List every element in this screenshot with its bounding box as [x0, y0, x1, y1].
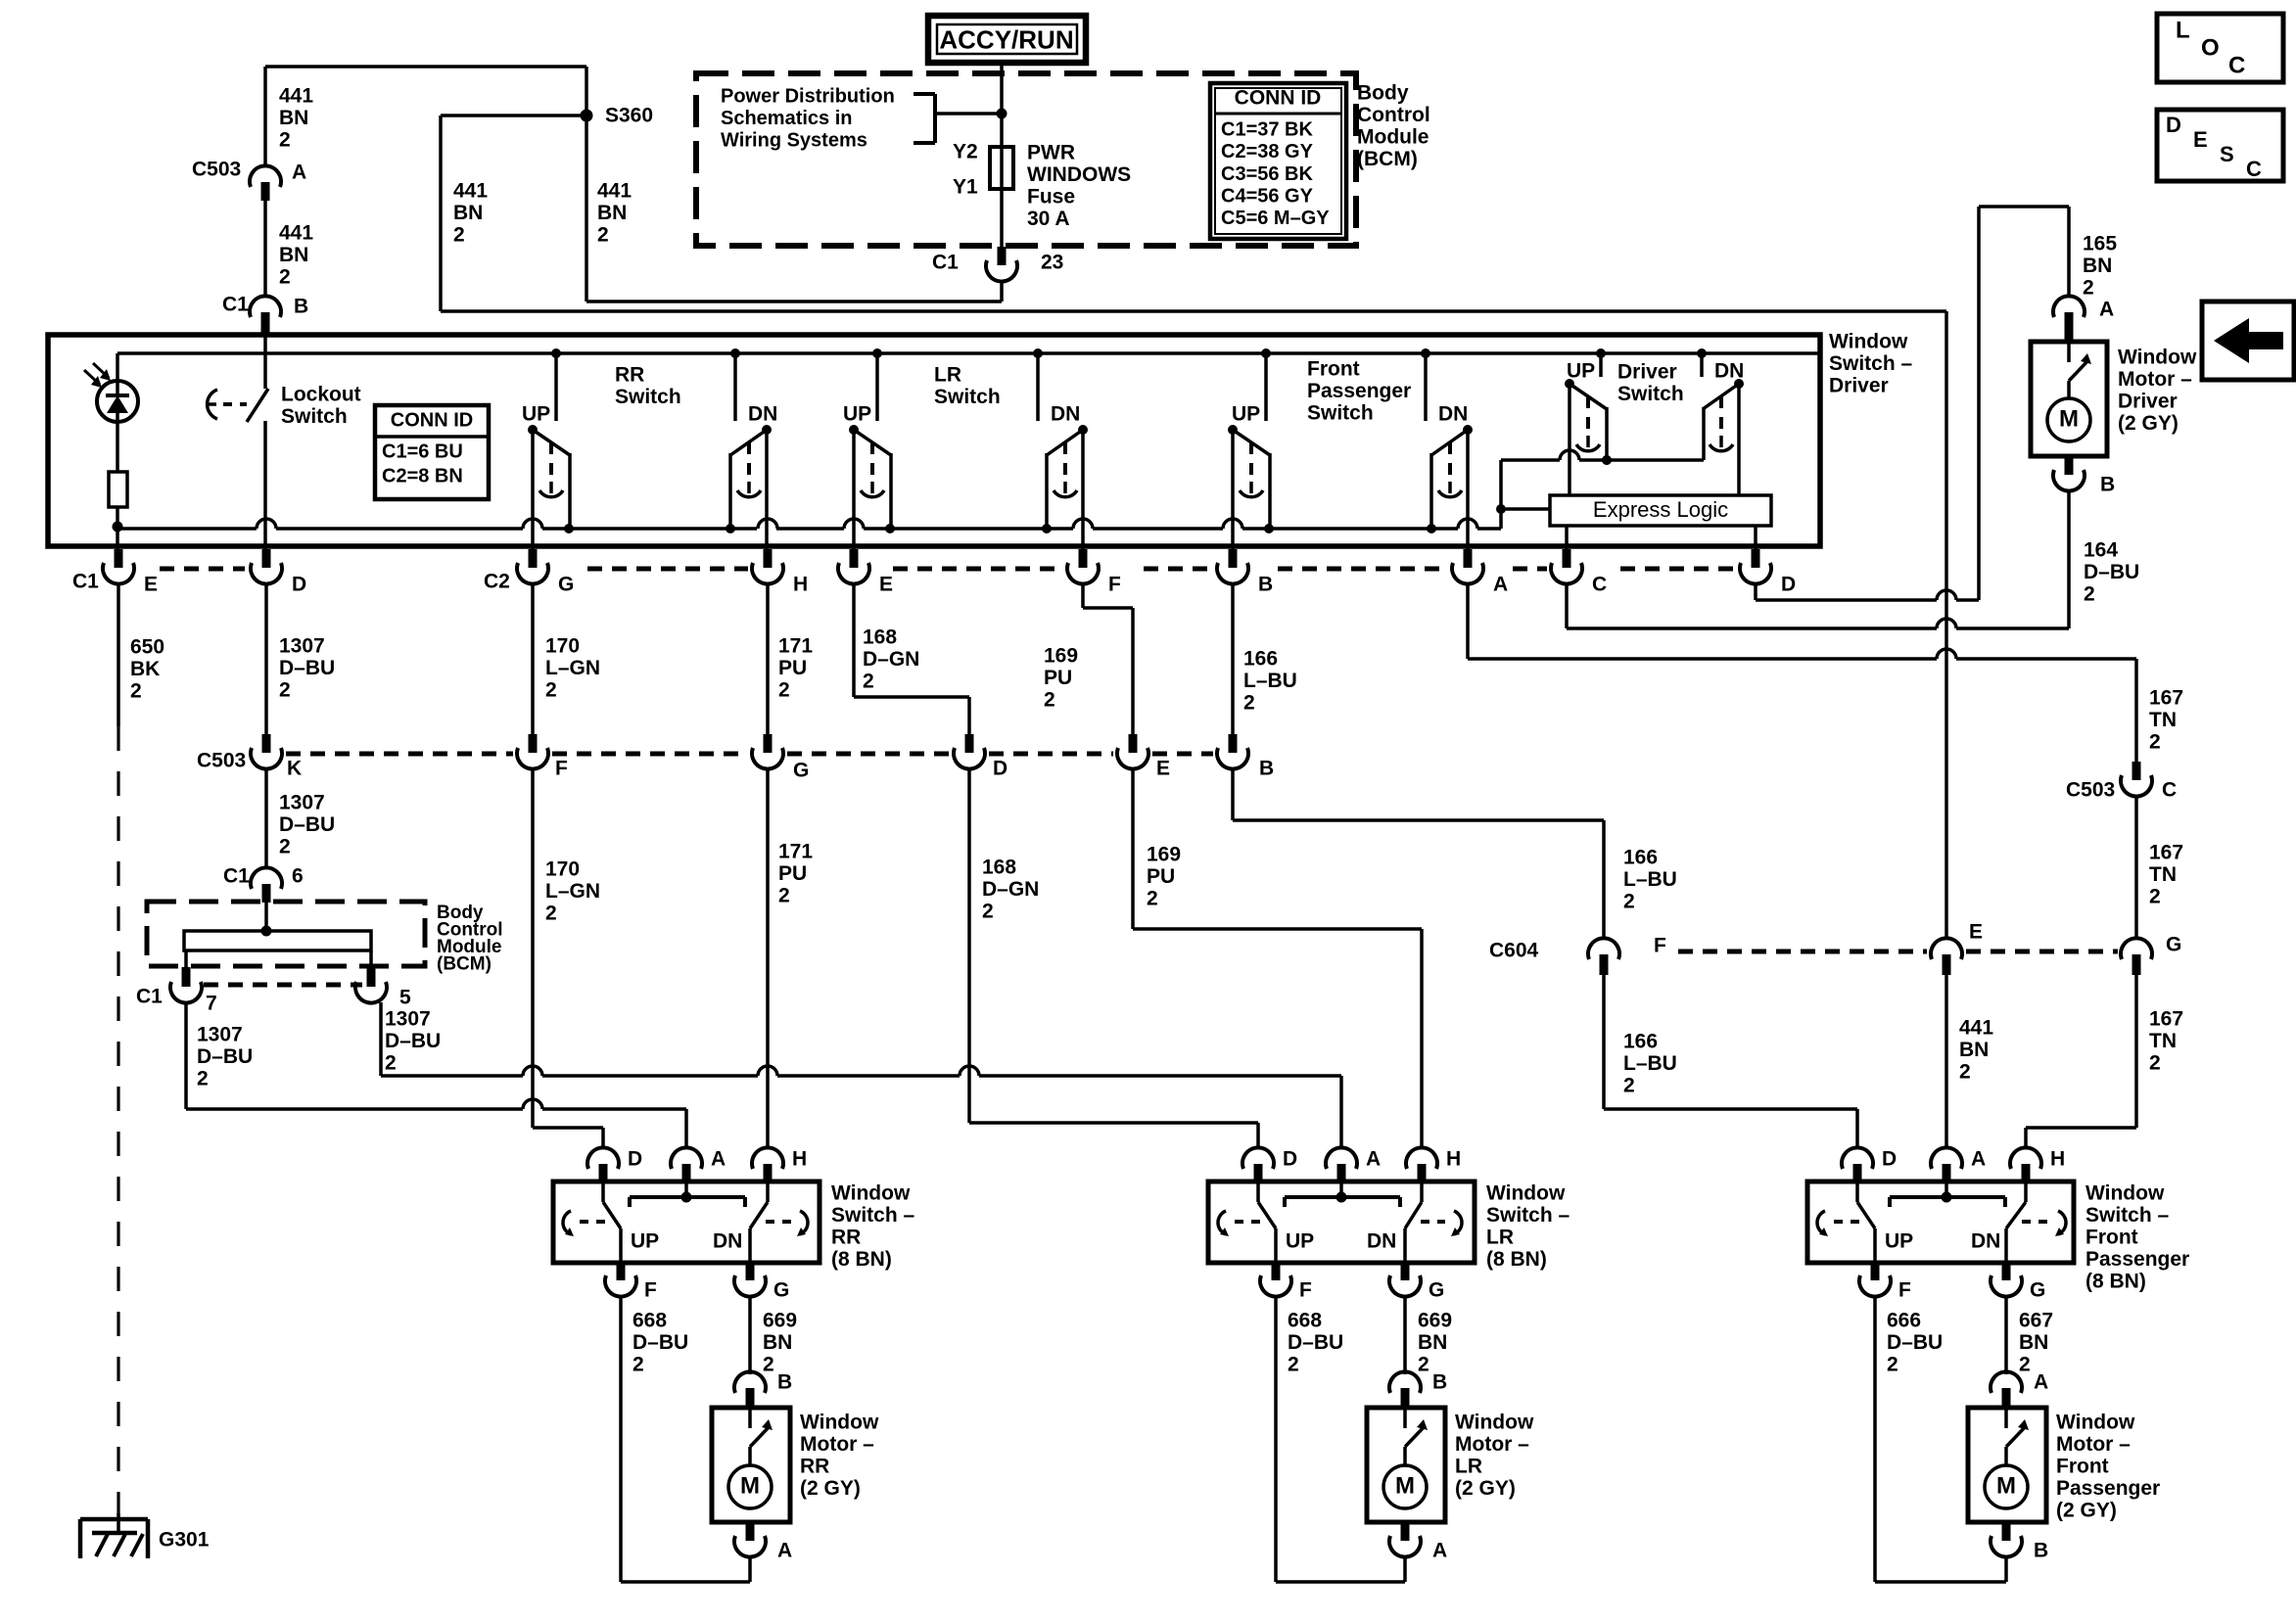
svg-text:DN: DN	[1714, 359, 1744, 382]
svg-text:BN: BN	[279, 107, 308, 129]
svg-text:A: A	[2099, 298, 2114, 320]
svg-text:LR: LR	[1486, 1226, 1514, 1248]
svg-text:C: C	[2228, 53, 2245, 79]
svg-text:D–BU: D–BU	[1288, 1331, 1343, 1354]
svg-text:B: B	[1258, 573, 1273, 595]
svg-text:RR: RR	[831, 1226, 861, 1248]
svg-text:G: G	[558, 573, 574, 595]
svg-text:E: E	[2193, 127, 2208, 152]
svg-text:TN: TN	[2149, 1030, 2177, 1052]
svg-text:169: 169	[1044, 644, 1078, 667]
svg-text:D: D	[628, 1147, 642, 1170]
svg-text:C5=6 M–GY: C5=6 M–GY	[1221, 208, 1330, 229]
svg-text:D–BU: D–BU	[197, 1045, 253, 1068]
svg-text:2: 2	[1623, 890, 1635, 912]
svg-text:1307: 1307	[279, 634, 325, 657]
svg-text:2: 2	[2019, 1353, 2031, 1375]
svg-text:D: D	[993, 757, 1007, 779]
svg-text:166: 166	[1623, 846, 1658, 868]
svg-text:PU: PU	[778, 862, 807, 885]
svg-text:B: B	[2100, 473, 2115, 495]
svg-text:B: B	[294, 295, 308, 317]
svg-text:D: D	[1781, 573, 1796, 595]
svg-text:171: 171	[778, 634, 813, 657]
svg-text:(2 GY): (2 GY)	[2056, 1499, 2117, 1521]
svg-text:B: B	[1432, 1370, 1447, 1393]
svg-text:LR: LR	[934, 363, 961, 386]
svg-text:D: D	[1283, 1147, 1297, 1170]
svg-text:Driver: Driver	[1829, 374, 1889, 396]
svg-text:M: M	[740, 1473, 760, 1500]
svg-text:B: B	[777, 1370, 792, 1393]
svg-text:UP: UP	[631, 1229, 659, 1252]
svg-text:A: A	[1366, 1147, 1381, 1170]
svg-text:2: 2	[1147, 887, 1158, 909]
svg-text:Lockout: Lockout	[281, 383, 361, 405]
svg-text:C2=8 BN: C2=8 BN	[382, 466, 463, 487]
svg-text:2: 2	[2149, 885, 2161, 907]
svg-text:D–BU: D–BU	[279, 813, 335, 836]
svg-text:S: S	[2220, 142, 2234, 166]
svg-text:Motor –: Motor –	[2118, 368, 2192, 391]
svg-text:Switch: Switch	[1307, 401, 1374, 424]
svg-text:H: H	[793, 573, 808, 595]
svg-text:DN: DN	[713, 1229, 742, 1252]
svg-text:G: G	[2030, 1278, 2045, 1301]
svg-text:H: H	[2050, 1147, 2065, 1170]
svg-text:668: 668	[633, 1309, 667, 1331]
svg-text:TN: TN	[2149, 709, 2177, 731]
svg-text:441: 441	[597, 179, 632, 202]
svg-text:441: 441	[1959, 1016, 1993, 1039]
svg-text:O: O	[2201, 35, 2220, 62]
svg-text:D–BU: D–BU	[1887, 1331, 1943, 1354]
svg-text:C1: C1	[72, 570, 99, 592]
svg-text:2: 2	[2149, 730, 2161, 753]
svg-text:(8 BN): (8 BN)	[1486, 1248, 1547, 1271]
svg-text:2: 2	[597, 223, 609, 246]
svg-text:L–GN: L–GN	[545, 657, 600, 679]
svg-text:C2: C2	[484, 570, 510, 592]
svg-text:2: 2	[1887, 1353, 1898, 1375]
svg-text:BK: BK	[130, 658, 160, 680]
svg-text:668: 668	[1288, 1309, 1322, 1331]
svg-text:C2=38 GY: C2=38 GY	[1221, 141, 1314, 162]
svg-text:E: E	[1969, 920, 1983, 943]
svg-text:C1=37 BK: C1=37 BK	[1221, 119, 1313, 141]
svg-text:UP: UP	[1567, 359, 1595, 382]
svg-text:Front: Front	[2056, 1455, 2109, 1477]
svg-text:C1=6 BU: C1=6 BU	[382, 441, 463, 463]
svg-text:C1: C1	[136, 985, 163, 1007]
svg-text:170: 170	[545, 634, 580, 657]
svg-text:BN: BN	[763, 1331, 792, 1354]
svg-text:F: F	[1299, 1278, 1312, 1301]
svg-text:C604: C604	[1489, 939, 1539, 961]
svg-text:C: C	[1592, 573, 1607, 595]
svg-text:BN: BN	[279, 244, 308, 266]
svg-text:167: 167	[2149, 686, 2183, 709]
svg-text:Window: Window	[2118, 346, 2197, 368]
svg-text:167: 167	[2149, 841, 2183, 863]
svg-text:D–BU: D–BU	[2084, 561, 2139, 583]
svg-text:166: 166	[1243, 647, 1278, 670]
svg-text:2: 2	[279, 128, 291, 151]
svg-text:2: 2	[279, 265, 291, 288]
svg-text:Window: Window	[1486, 1182, 1566, 1204]
svg-text:WINDOWS: WINDOWS	[1027, 163, 1131, 186]
svg-text:2: 2	[2083, 276, 2094, 299]
svg-text:F: F	[644, 1278, 657, 1301]
svg-text:6: 6	[292, 864, 304, 887]
svg-text:Driver: Driver	[2118, 390, 2178, 412]
svg-text:7: 7	[206, 992, 217, 1014]
svg-text:D–GN: D–GN	[863, 648, 919, 671]
svg-text:ACCY/RUN: ACCY/RUN	[939, 24, 1073, 54]
svg-text:BN: BN	[2019, 1331, 2048, 1354]
svg-text:170: 170	[545, 857, 580, 880]
svg-text:(2 GY): (2 GY)	[1455, 1477, 1516, 1500]
svg-text:2: 2	[778, 884, 790, 906]
svg-text:Front: Front	[2085, 1226, 2138, 1248]
svg-text:M: M	[2059, 406, 2079, 433]
svg-text:Window: Window	[831, 1182, 911, 1204]
svg-text:2: 2	[2084, 582, 2095, 605]
svg-text:(2 GY): (2 GY)	[2118, 412, 2179, 435]
svg-text:D: D	[292, 573, 306, 595]
svg-text:2: 2	[1288, 1353, 1299, 1375]
svg-text:PU: PU	[778, 657, 807, 679]
svg-text:23: 23	[1041, 251, 1063, 273]
svg-text:5: 5	[399, 986, 411, 1008]
svg-text:1307: 1307	[197, 1023, 243, 1045]
svg-text:E: E	[144, 573, 158, 595]
svg-text:(BCM): (BCM)	[1357, 148, 1418, 170]
svg-text:G301: G301	[159, 1528, 210, 1551]
svg-text:1307: 1307	[385, 1007, 431, 1030]
svg-text:DN: DN	[1971, 1229, 2000, 1252]
svg-text:Schematics in: Schematics in	[721, 108, 853, 129]
svg-text:Switch –: Switch –	[831, 1204, 915, 1227]
svg-text:M: M	[1996, 1473, 2016, 1500]
svg-text:C: C	[2162, 778, 2177, 801]
svg-text:BN: BN	[2083, 255, 2112, 277]
svg-text:2: 2	[197, 1067, 209, 1089]
svg-text:D–BU: D–BU	[633, 1331, 688, 1354]
svg-text:666: 666	[1887, 1309, 1921, 1331]
svg-text:DN: DN	[748, 402, 777, 425]
svg-text:Front: Front	[1307, 357, 1360, 380]
svg-text:F: F	[1654, 934, 1666, 956]
svg-text:L–GN: L–GN	[545, 880, 600, 903]
svg-text:UP: UP	[1232, 402, 1260, 425]
svg-text:CONN ID: CONN ID	[1235, 86, 1322, 109]
svg-text:2: 2	[982, 900, 994, 922]
svg-text:2: 2	[2149, 1051, 2161, 1074]
svg-text:Motor –: Motor –	[1455, 1433, 1529, 1456]
svg-text:Switch: Switch	[934, 386, 1001, 408]
svg-text:K: K	[287, 757, 302, 779]
svg-text:C1: C1	[222, 293, 249, 315]
svg-text:L–BU: L–BU	[1243, 670, 1297, 692]
svg-text:2: 2	[453, 223, 465, 246]
svg-text:164: 164	[2084, 538, 2118, 561]
svg-text:BN: BN	[1418, 1331, 1447, 1354]
svg-text:2: 2	[545, 678, 557, 701]
svg-text:A: A	[2034, 1370, 2048, 1393]
svg-text:CONN ID: CONN ID	[391, 410, 473, 432]
svg-text:168: 168	[982, 856, 1016, 878]
svg-text:Passenger: Passenger	[1307, 380, 1411, 402]
svg-text:Y1: Y1	[953, 175, 978, 198]
svg-text:Module: Module	[1357, 125, 1429, 148]
svg-text:C1: C1	[932, 251, 959, 273]
svg-text:L–BU: L–BU	[1623, 868, 1677, 891]
svg-text:A: A	[1493, 573, 1508, 595]
svg-text:A: A	[1971, 1147, 1986, 1170]
svg-text:L–BU: L–BU	[1623, 1052, 1677, 1075]
svg-text:Body: Body	[1357, 81, 1409, 104]
svg-text:650: 650	[130, 635, 164, 658]
svg-text:Passenger: Passenger	[2085, 1248, 2189, 1271]
svg-text:441: 441	[279, 84, 313, 107]
svg-text:LR: LR	[1455, 1455, 1482, 1477]
svg-text:F: F	[555, 757, 568, 779]
svg-text:Fuse: Fuse	[1027, 185, 1075, 208]
svg-text:DN: DN	[1438, 402, 1468, 425]
svg-text:Passenger: Passenger	[2056, 1477, 2160, 1500]
svg-text:PU: PU	[1044, 667, 1072, 689]
svg-text:168: 168	[863, 626, 897, 648]
svg-text:Switch –: Switch –	[2085, 1204, 2170, 1227]
svg-text:171: 171	[778, 840, 813, 862]
svg-text:C3=56 BK: C3=56 BK	[1221, 163, 1313, 185]
svg-text:Window: Window	[800, 1411, 879, 1433]
svg-text:Power Distribution: Power Distribution	[721, 86, 895, 108]
svg-text:Switch –: Switch –	[1829, 352, 1913, 375]
svg-text:M: M	[1395, 1473, 1415, 1500]
svg-text:1307: 1307	[279, 791, 325, 813]
svg-text:C4=56 GY: C4=56 GY	[1221, 185, 1314, 207]
svg-text:Window: Window	[2085, 1182, 2165, 1204]
svg-text:UP: UP	[1286, 1229, 1314, 1252]
svg-text:C: C	[2246, 157, 2262, 181]
svg-text:A: A	[1432, 1539, 1447, 1561]
svg-text:441: 441	[453, 179, 488, 202]
svg-text:BN: BN	[1959, 1039, 1989, 1061]
svg-text:Y2: Y2	[953, 140, 978, 162]
svg-text:D–BU: D–BU	[279, 657, 335, 679]
svg-text:(8 BN): (8 BN)	[2085, 1270, 2146, 1292]
svg-text:E: E	[1156, 757, 1170, 779]
svg-text:Window: Window	[2056, 1411, 2135, 1433]
svg-text:2: 2	[633, 1353, 644, 1375]
svg-text:2: 2	[1044, 688, 1055, 711]
svg-text:C503: C503	[2066, 778, 2115, 801]
svg-text:(8 BN): (8 BN)	[831, 1248, 892, 1271]
svg-text:2: 2	[545, 902, 557, 924]
svg-text:A: A	[292, 161, 306, 183]
svg-text:2: 2	[279, 835, 291, 857]
svg-text:Motor –: Motor –	[2056, 1433, 2131, 1456]
svg-text:Control: Control	[1357, 104, 1430, 126]
svg-text:B: B	[1259, 757, 1274, 779]
svg-text:Switch –: Switch –	[1486, 1204, 1570, 1227]
svg-text:H: H	[1446, 1147, 1461, 1170]
svg-text:RR: RR	[800, 1455, 829, 1477]
svg-text:F: F	[1108, 573, 1121, 595]
svg-text:PU: PU	[1147, 865, 1175, 888]
svg-text:2: 2	[1623, 1074, 1635, 1096]
svg-text:30 A: 30 A	[1027, 208, 1070, 230]
svg-text:669: 669	[1418, 1309, 1452, 1331]
svg-text:2: 2	[763, 1353, 774, 1375]
svg-text:C503: C503	[197, 749, 246, 771]
svg-text:BN: BN	[453, 202, 483, 224]
svg-text:Switch: Switch	[281, 405, 348, 428]
svg-text:2: 2	[279, 678, 291, 701]
svg-text:(2 GY): (2 GY)	[800, 1477, 861, 1500]
svg-text:669: 669	[763, 1309, 797, 1331]
svg-text:G: G	[793, 759, 809, 781]
svg-text:667: 667	[2019, 1309, 2053, 1331]
svg-text:Window: Window	[1829, 330, 1908, 352]
svg-text:441: 441	[279, 221, 313, 244]
svg-text:DN: DN	[1051, 402, 1080, 425]
svg-text:169: 169	[1147, 843, 1181, 865]
svg-text:2: 2	[130, 679, 142, 702]
svg-text:2: 2	[1243, 691, 1255, 714]
svg-text:C1: C1	[223, 864, 250, 887]
svg-text:TN: TN	[2149, 863, 2177, 886]
svg-text:B: B	[2034, 1539, 2048, 1561]
svg-text:UP: UP	[522, 402, 550, 425]
svg-text:D–GN: D–GN	[982, 878, 1039, 901]
svg-text:BN: BN	[597, 202, 627, 224]
svg-text:G: G	[773, 1278, 789, 1301]
svg-text:S360: S360	[605, 104, 653, 126]
svg-text:167: 167	[2149, 1007, 2183, 1030]
svg-text:Wiring Systems: Wiring Systems	[721, 130, 867, 152]
svg-text:Driver: Driver	[1617, 360, 1677, 383]
svg-text:Express Logic: Express Logic	[1593, 497, 1728, 522]
svg-text:D–BU: D–BU	[385, 1030, 441, 1052]
svg-text:UP: UP	[843, 402, 871, 425]
svg-text:G: G	[2166, 933, 2181, 955]
svg-text:D: D	[1882, 1147, 1897, 1170]
svg-text:Motor –: Motor –	[800, 1433, 874, 1456]
svg-text:UP: UP	[1885, 1229, 1913, 1252]
svg-text:2: 2	[385, 1051, 397, 1074]
svg-text:E: E	[879, 573, 893, 595]
svg-text:D: D	[2166, 113, 2181, 137]
svg-text:A: A	[711, 1147, 726, 1170]
svg-text:2: 2	[863, 670, 874, 692]
svg-text:PWR: PWR	[1027, 141, 1075, 163]
svg-text:A: A	[777, 1539, 792, 1561]
svg-text:RR: RR	[615, 363, 644, 386]
svg-text:(BCM): (BCM)	[437, 953, 492, 974]
svg-text:166: 166	[1623, 1030, 1658, 1052]
svg-text:2: 2	[778, 678, 790, 701]
svg-text:Window: Window	[1455, 1411, 1534, 1433]
svg-text:2: 2	[1418, 1353, 1429, 1375]
svg-text:165: 165	[2083, 232, 2117, 255]
svg-text:C503: C503	[192, 158, 241, 180]
svg-text:Switch: Switch	[1617, 383, 1684, 405]
svg-text:L: L	[2176, 18, 2190, 44]
svg-text:2: 2	[1959, 1060, 1971, 1083]
svg-text:G: G	[1429, 1278, 1444, 1301]
svg-text:Switch: Switch	[615, 386, 681, 408]
svg-text:F: F	[1898, 1278, 1911, 1301]
svg-text:DN: DN	[1367, 1229, 1396, 1252]
svg-text:H: H	[792, 1147, 807, 1170]
